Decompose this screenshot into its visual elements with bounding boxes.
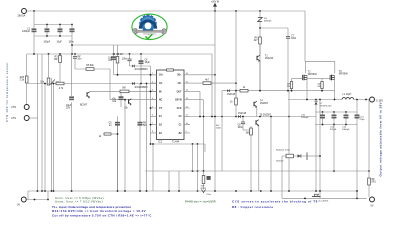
junction 0V stub (34, 199, 49, 201)
svg-text:BYW29-200: BYW29-200 (320, 106, 333, 108)
terminal 0V right (370, 197, 375, 207)
svg-text:TL494: TL494 (172, 140, 180, 144)
wire C11 bottom stub (333, 118, 335, 124)
capacitor C12 (344, 115, 348, 118)
resistor R13 4.7k (56, 82, 64, 90)
resistor R26 3.3k (20, 76, 28, 83)
wire x236 mid (235, 91, 237, 98)
wire pin4 row (110, 99, 157, 101)
transistor T5 2N2907 (256, 115, 272, 127)
capacitor C8 10uF (66, 97, 74, 110)
junctions y116.5 (199, 116, 290, 118)
diode D4 1N4148 (238, 113, 247, 118)
wire row y69 (75, 68, 110, 70)
svg-text:1N4148: 1N4148 (276, 161, 284, 163)
wire x197 drop (197, 144, 199, 191)
wire column x260 top (259, 11, 261, 17)
wire column x140 (139, 84, 141, 123)
wire T2 gate link (292, 78, 303, 80)
svg-text:1N4148: 1N4148 (238, 113, 247, 115)
wire x271 drop (270, 117, 272, 192)
wire C6 down (140, 64, 142, 84)
svg-text:0Xov: 0Xov (207, 194, 212, 196)
junction output node (356, 99, 367, 101)
radiator temp sensor circuit (276, 149, 313, 163)
svg-text:BC547: BC547 (80, 105, 88, 107)
wire R20 link (111, 133, 118, 135)
wire x48 to rail (47, 191, 49, 200)
wire x236 drop (235, 75, 237, 98)
trimmer P1 (312, 194, 328, 202)
wire C4 top stub (71, 25, 73, 29)
wire 0V stub (26, 199, 48, 201)
svg-text:100n: 100n (216, 128, 222, 130)
junctions y144 (150, 143, 199, 145)
svg-text:28V/2A: 28V/2A (18, 15, 26, 18)
wire column x37 (36, 54, 38, 191)
wire pin16 to x215 (190, 74, 215, 76)
wire T1 collector (259, 44, 261, 55)
wire x169 drop (168, 171, 170, 191)
wire T6 collector (89, 90, 91, 92)
transistor T3 IRF9540 (330, 71, 348, 80)
svg-text:IC2: IC2 (158, 140, 163, 144)
wire C8b down (242, 124, 244, 130)
resistor R3 10k (54, 56, 62, 63)
wire x200 drop (199, 91, 201, 116)
wire C2 top stub (74, 54, 76, 57)
wire D9 to node (259, 22, 261, 29)
capacitor C6 10uF (139, 60, 151, 65)
svg-text:25V: 25V (66, 107, 71, 109)
svg-text:OSYN: OSYN (175, 100, 182, 102)
wire C1 top stub (33, 25, 35, 29)
wire ground rail left end (27, 191, 29, 200)
wire pin1 row (114, 74, 157, 76)
terminal CTN B (11, 116, 29, 121)
wire x357 tail (356, 191, 358, 198)
svg-text:1000μF: 1000μF (342, 129, 350, 131)
svg-text:tehnoguru.com: tehnoguru.com (143, 33, 156, 36)
wire x320 column (319, 100, 321, 199)
svg-text:CTN 10K for temperature sensor: CTN 10K for temperature sensor (5, 62, 9, 122)
resistor R14 1k (230, 98, 237, 105)
svg-text:CYS serves to accelerate the b: CYS serves to accelerate the blocking of… (232, 200, 318, 204)
wire x179 drop (178, 171, 180, 191)
logo watermark (132, 14, 167, 39)
wire R6 down (259, 44, 261, 91)
wire radiator to x320 (313, 155, 320, 157)
junction x125 pin4 (124, 99, 126, 101)
wire C5 down (117, 125, 119, 191)
wire C12 top stub (345, 112, 347, 115)
capacitor C10 (320, 115, 324, 118)
svg-text:2O-: 2O- (178, 83, 182, 85)
wire gate drive bus y90.7 (222, 90, 335, 92)
wire cap4 column down (71, 36, 73, 54)
wire x206 drop (203, 100, 205, 171)
wire x110 drop (109, 69, 111, 100)
svg-text:1O-: 1O- (159, 83, 163, 85)
svg-text:100μF: 100μF (44, 42, 51, 44)
wire T2-T3 mid link (307, 78, 322, 80)
wire D7 top stub (315, 100, 317, 102)
svg-text:L1 40μH: L1 40μH (343, 94, 352, 96)
terminal 0V left (17, 197, 26, 206)
junctions on top rail (33, 10, 261, 12)
wire x153 drop (152, 144, 154, 191)
wire source bus y61.3 (305, 60, 335, 62)
capacitor C8 100n (238, 122, 246, 129)
wire cap bank bottom bus (34, 35, 72, 37)
wire x222 drop (221, 91, 223, 171)
junctions left pin column (150, 74, 152, 126)
wire T3 gate link (322, 78, 330, 80)
wire T3 top stub (334, 61, 336, 73)
wire caps bottom bus (315, 124, 357, 126)
wire x334 to bus171 (333, 125, 335, 172)
wire C1 bottom stub (33, 32, 35, 36)
junction R19 bus (321, 90, 323, 92)
svg-text:IRF9540: IRF9540 (308, 74, 318, 76)
transistor T2 IRF9540 (303, 72, 318, 81)
capacitor C11 (332, 115, 336, 118)
capacitor C4 100n (69, 29, 75, 44)
wire R15 down (250, 135, 252, 191)
wire CTN B link (29, 117, 37, 119)
wire C11 top stub (333, 112, 335, 115)
diode D1 1N4148 (132, 82, 148, 89)
junction x260 y28 (259, 27, 261, 29)
wire L1 to output (354, 99, 370, 101)
wire x305 from top (304, 11, 306, 61)
svg-text:10μF: 10μF (57, 42, 63, 44)
svg-text:100n: 100n (122, 59, 128, 61)
wire C10 top stub (322, 112, 324, 115)
junction R18 bus (291, 90, 293, 92)
capacitor C7 100n (286, 36, 297, 41)
wire T2 top stub (304, 61, 306, 73)
wire +28V flag column (214, 11, 216, 45)
wire feedback bus y116.5 (190, 116, 316, 118)
wire R26 column bottom (26, 83, 28, 105)
wire C7 down to gate bus (287, 38, 289, 90)
junction y45 x72 (71, 44, 73, 46)
wire column x71 lower (71, 102, 73, 191)
wire C3 bottom stub (59, 32, 61, 36)
zener diode D9 BZW06 (258, 18, 272, 23)
wire y45 branch (72, 44, 215, 46)
resistor R18 gate (290, 82, 292, 89)
wire pin3 row (90, 90, 157, 92)
terminal CTN A (11, 105, 29, 110)
resistor R5 90k (86, 65, 95, 70)
wire C14 down (120, 100, 122, 107)
wire C2 top stub (46, 25, 48, 29)
svg-text:100n: 100n (238, 127, 244, 129)
wire under-IC bus y144 (151, 143, 206, 145)
wire column x236 top (235, 11, 237, 75)
capacitor C3 100n (122, 59, 132, 61)
svg-text:Cut off by temperature 2.75V o: Cut off by temperature 2.75V on CTN / R2… (52, 213, 152, 217)
svg-text:47μ: 47μ (108, 60, 113, 62)
wire C9 down (139, 125, 141, 191)
transistor T4 2N2907a (254, 101, 269, 109)
wire T2 drain drop (306, 80, 308, 100)
wire R18 to gate bus (291, 89, 293, 91)
wire pin13 stub (190, 99, 204, 101)
wire input rail drop (33, 11, 35, 25)
wire bottom right link (282, 197, 367, 199)
junctions cap bottom bus (46, 35, 61, 37)
capacitor C2 10n (73, 56, 82, 61)
capacitor C13 (355, 115, 359, 118)
junction radiator x320 (319, 155, 321, 157)
resistor R20 (99, 133, 111, 138)
svg-text:22R: 22R (287, 86, 291, 88)
wire x192 drop (192, 144, 194, 171)
wire column x51 (51, 88, 53, 191)
wire pin15 lead2 (211, 82, 236, 84)
power flag +28V IN (211, 1, 220, 11)
wire R26 column top (26, 54, 28, 76)
svg-text:OUT: OUT (177, 91, 182, 93)
wire pin15 lead (190, 82, 203, 84)
wire x117 column (117, 45, 119, 57)
svg-text:100n: 100n (69, 42, 75, 44)
diode D3 1N4148 (227, 89, 236, 96)
reference sub-circuit with ground (201, 171, 212, 196)
svg-text:Radiator temp.: Radiator temp. (276, 149, 291, 152)
svg-text:R8 : Copper resistance: R8 : Copper resistance (232, 205, 273, 209)
wire C7 column (287, 28, 289, 37)
svg-text:IN-: IN- (159, 91, 162, 93)
wire cap bank top bus (34, 24, 72, 26)
resistor R19 gate (321, 82, 323, 89)
wire C3 down (129, 61, 131, 66)
wire switch node y99.5 (288, 99, 342, 101)
junction caps top (322, 111, 347, 113)
wire C2 down (74, 58, 76, 69)
svg-text:100n: 100n (291, 38, 297, 40)
capacitor C3 10uF (57, 29, 63, 44)
junction x153 y144 (152, 143, 154, 145)
wire T4 drop (256, 107, 258, 116)
svg-text:BZW06: BZW06 (264, 21, 272, 23)
svg-text:10μF: 10μF (145, 62, 151, 64)
svg-text:1000μF: 1000μF (22, 31, 31, 33)
wire node x260 to C7 (260, 27, 288, 29)
svg-text:1N4148/BZX: 1N4148/BZX (134, 69, 148, 71)
wire C8b top (242, 117, 244, 123)
wire column x146 (146, 84, 148, 192)
junction pin16 x215 (214, 74, 216, 76)
wire x113 column low (113, 60, 115, 75)
svg-text:0V: 0V (17, 203, 20, 206)
trimmer P2 arrow (51, 78, 60, 88)
wire C12 bottom stub (345, 118, 347, 124)
capacitor C16 10n (108, 57, 116, 63)
wire x282 drop (281, 156, 283, 198)
svg-text:0 +0.2-28Vdc: 0 +0.2-28Vdc (316, 201, 328, 203)
wire R14 down (235, 105, 237, 117)
svg-text:Rf=5W ohm => Iso=U5/5R: Rf=5W ohm => Iso=U5/5R (185, 200, 216, 204)
svg-text:47μF: 47μF (360, 119, 366, 121)
transistor T6 BC547 (80, 92, 90, 107)
wire C3 top (129, 54, 131, 59)
svg-text:1O+: 1O+ (159, 75, 164, 77)
wire R7 cap link (120, 93, 122, 97)
wire T3 drain drop (334, 80, 336, 100)
inductor L1 (342, 94, 354, 99)
wire x117 column low (117, 63, 119, 75)
resistor R7 5W (120, 88, 129, 93)
wire node to R6 (259, 28, 261, 37)
svg-text:2200μF: 2200μF (301, 117, 309, 119)
junction x146 y83.5 (146, 83, 148, 85)
svg-text:+28V IN: +28V IN (211, 1, 220, 3)
wire C3 top stub (59, 25, 61, 29)
wire T5 drop (258, 125, 260, 191)
wire left pin column (150, 66, 152, 144)
wire T1 emitter (259, 61, 261, 91)
svg-text:T5 2N2907: T5 2N2907 (260, 115, 272, 117)
capacitor C2 100uF (44, 29, 51, 44)
svg-text:VCC: VCC (177, 108, 182, 110)
wire column x71 (71, 54, 73, 96)
wire ground rail y191 (28, 190, 357, 192)
wire R8 top (368, 171, 370, 178)
resistor R15 5k6 (246, 128, 253, 135)
junction bottom right (304, 198, 358, 200)
resistor R12 4k7 (116, 54, 124, 63)
wire column x42 (41, 54, 43, 191)
junction pin15 x236 (235, 82, 237, 84)
wire caps top bus (315, 111, 357, 113)
junctions y171 (192, 170, 370, 172)
wire top +28V rail (26, 10, 305, 12)
wire C8 to R15 (243, 129, 251, 131)
junction node (306, 99, 335, 101)
wire C2 bottom stub (46, 32, 48, 36)
wire bus y83.5 (28, 83, 157, 85)
resistor R2 10k (40, 78, 50, 85)
svg-text:2O+: 2O+ (177, 75, 182, 77)
svg-text:470μF: 470μF (330, 129, 337, 131)
svg-text:CTN: CTN (11, 106, 16, 109)
svg-text:CTN: CTN (11, 117, 16, 120)
svg-text:2N2222: 2N2222 (265, 58, 274, 60)
wire bus y171 feedback (145, 170, 369, 172)
IC U1 pins (151, 73, 191, 135)
junction pin1 x117 (117, 74, 119, 76)
svg-text:IRF9540: IRF9540 (339, 74, 349, 76)
wire column x53 (53, 84, 55, 192)
resistor R17 4k7 (203, 79, 211, 84)
svg-text:0R1: 0R1 (372, 182, 377, 184)
wire T5 base stub (250, 126, 252, 128)
wire C6 column (140, 54, 142, 61)
transistor T1 2N2222 (257, 55, 274, 62)
junctions gate bus (235, 90, 289, 92)
wire column x45 (44, 84, 46, 192)
wire R19 to gate bus (321, 89, 323, 91)
svg-text:0V: 0V (371, 204, 374, 207)
wire x289 drop (288, 91, 290, 191)
resistor R6 4.7k (254, 37, 262, 44)
svg-text:1N4148/BZX: 1N4148/BZX (134, 87, 148, 89)
wire R3 down (59, 63, 61, 84)
wire x205 drop (204, 144, 206, 152)
capacitor C5 1n (109, 122, 120, 127)
wire x215 long drop (214, 45, 216, 191)
IC U1 TL494 body (157, 69, 185, 144)
svg-text:1N4148: 1N4148 (227, 94, 236, 96)
junction x357 rail (356, 190, 358, 192)
junctions cap top bus (46, 24, 73, 26)
wire R8 bottom (368, 185, 370, 197)
junctions y83.5 (44, 83, 142, 85)
wire D7 return to ground (315, 105, 317, 191)
wire C10 bottom stub (322, 118, 324, 124)
wire caps feed (356, 100, 358, 113)
diode D7 BYW29-200 (314, 101, 332, 107)
capacitor C1 1000uF (22, 29, 36, 34)
wire R18 top stub (291, 79, 293, 82)
wire left rail to Vcc bus (33, 36, 35, 54)
wire C4 bottom stub (71, 32, 73, 36)
wire x113 column (113, 45, 115, 57)
junctions on Vcc rail (33, 53, 142, 55)
output terminal 0-28V (370, 97, 384, 103)
capacitor C14 (112, 97, 123, 104)
wire R19 top stub (321, 79, 323, 82)
wire R2 top (48, 54, 50, 78)
capacitor C9 5k6 (138, 122, 148, 127)
wire x357 down (356, 125, 358, 199)
junction C8b (242, 116, 244, 118)
transistor T7 (124, 99, 131, 110)
input terminal 28V/2A (18, 9, 27, 18)
wire output sense drop (368, 100, 370, 172)
junction x197 rail (197, 190, 199, 192)
svg-text:Output voltage adjustable from: Output voltage adjustable from 0V to 28V (379, 101, 383, 176)
wire C13 top stub (356, 112, 358, 115)
wire Vcc rail y54 (27, 53, 212, 55)
diode D2 1N4148 (132, 65, 148, 71)
svg-text:22R: 22R (317, 86, 321, 88)
svg-text:R5 90k: R5 90k (86, 65, 94, 67)
svg-text:NC: NC (159, 100, 163, 102)
junction caps bottom (322, 124, 347, 126)
svg-text:2N2907: 2N2907 (260, 103, 269, 105)
resistor R16 1k (240, 87, 248, 92)
wire pin14 stub (190, 90, 200, 92)
svg-text:Umax. Uout <= 7.0/12 (WVbu): Umax. Uout <= 7.0/12 (WVbu) (55, 199, 103, 203)
wire box right edge down (211, 54, 213, 117)
wire C13 bottom stub (356, 118, 358, 124)
junction R20 (117, 133, 119, 135)
resistor R8 copper (368, 178, 377, 185)
wire column x125 (124, 100, 126, 191)
wire D2 row (130, 65, 151, 67)
junctions ground rail (37, 190, 321, 192)
wire column x117 (117, 116, 119, 191)
